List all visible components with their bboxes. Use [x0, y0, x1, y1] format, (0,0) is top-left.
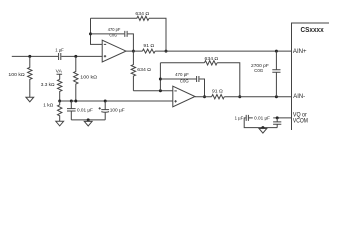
svg-text:470 pF: 470 pF [108, 27, 121, 33]
pin AIN- [293, 93, 305, 100]
svg-text:1 µF: 1 µF [55, 48, 64, 54]
wire cap branch to U2 output node [199, 79, 204, 97]
svg-text:C0G: C0G [180, 79, 189, 85]
svg-text:634 Ω: 634 Ω [205, 56, 219, 62]
svg-text:C0G: C0G [254, 68, 263, 74]
resistor 634 Ohm to U2 input [131, 51, 151, 91]
node U1 output [132, 50, 135, 53]
capacitor 1 uF VQ [235, 115, 249, 122]
wire AIN+ line [155, 50, 291, 52]
wire ground bus under bias caps [71, 119, 105, 121]
wire U1 feedback top right segment [149, 18, 166, 51]
node 0.01uF tap [70, 100, 73, 103]
capacitor 100 uF bias [99, 101, 125, 120]
capacitor 2700 pF [251, 51, 281, 97]
ground under bias caps [84, 120, 92, 126]
wire U1 output to AIN+ [126, 50, 142, 52]
svg-text:1 µF: 1 µF [235, 115, 244, 121]
resistor 91 Ohm U2 output [212, 89, 225, 99]
svg-text:VCOM: VCOM [293, 117, 308, 124]
svg-text:C0G: C0G [109, 33, 117, 39]
op-amp U2 [173, 86, 195, 107]
node U1 feedback tap after 91 Ohm [165, 50, 168, 53]
node 0.01uF VQ tap [276, 116, 279, 119]
node 100uF tap [104, 100, 107, 103]
svg-text:91 Ω: 91 Ω [212, 89, 223, 95]
resistor 634 Ohm U1 feedback [135, 11, 149, 20]
node input bias junction 2 [74, 55, 77, 58]
node input bias junction 1 [28, 55, 31, 58]
power rail VA [56, 69, 63, 80]
node U2 feedback tap after 91 Ohm [238, 95, 241, 98]
label CSxxxx [301, 25, 325, 34]
node U1 feedback cap tap [89, 32, 92, 35]
ground VQ [259, 128, 267, 134]
resistor 3.3 kOhm [41, 79, 62, 101]
svg-text:AIN-: AIN- [293, 93, 305, 100]
svg-text:100 kΩ: 100 kΩ [8, 72, 25, 78]
resistor 1 kOhm [43, 101, 62, 121]
IC CSxxxx border [292, 23, 330, 130]
ground under 1 kOhm [56, 121, 64, 126]
wire to U2 inverting input [133, 90, 172, 92]
node U2 feedback junction [159, 89, 162, 92]
svg-text:1 kΩ: 1 kΩ [43, 102, 53, 108]
capacitor 470 pF U1 [108, 27, 127, 39]
resistor 91 Ohm U1 output [142, 43, 155, 53]
capacitor 470 pF U2 [175, 72, 199, 84]
svg-text:91 Ω: 91 Ω [143, 43, 154, 49]
svg-text:100 µF: 100 µF [110, 108, 125, 114]
node ground bus [87, 118, 90, 121]
ground under 100 kOhm left [26, 97, 34, 102]
resistor 100 kOhm left [8, 56, 32, 97]
svg-text:634 Ω: 634 Ω [137, 67, 151, 73]
svg-text:100 kΩ: 100 kΩ [80, 74, 97, 80]
wire U1 feedback cap branch [91, 33, 125, 35]
svg-text:470 pF: 470 pF [175, 72, 189, 78]
wire VQ line [249, 117, 292, 119]
node 2700pF top [275, 50, 278, 53]
svg-text:0.01 µF: 0.01 µF [77, 107, 93, 113]
wire cap branch to U1 output node [128, 34, 134, 51]
pin VCOM [293, 117, 308, 124]
wire VQ cap to ground [244, 118, 277, 128]
resistor 634 Ohm U2 feedback [204, 56, 218, 65]
pin VQ or [293, 112, 307, 119]
svg-text:0.01 µF: 0.01 µF [254, 116, 270, 122]
pin AIN+ [293, 48, 307, 55]
node U2 output [203, 95, 206, 98]
svg-text:3.3 kΩ: 3.3 kΩ [41, 82, 55, 88]
capacitor C 1uF input [55, 48, 64, 60]
wire bias line to op-amp U2 plus input [60, 100, 173, 102]
node 100k tap on bias line [74, 100, 77, 103]
node U2 feedback cap tap [159, 78, 162, 81]
svg-text:CSxxxx: CSxxxx [301, 25, 325, 34]
svg-text:634 Ω: 634 Ω [135, 11, 149, 17]
capacitor 0.01 uF VQ [253, 115, 281, 128]
node 2700pF bottom [275, 95, 278, 98]
wire U2 output to AIN- [195, 96, 212, 98]
wire U2 feedback left vertical [159, 63, 161, 91]
svg-text:AIN+: AIN+ [293, 48, 307, 55]
wire AIN- line [224, 96, 291, 98]
wire input line left segment [12, 55, 58, 57]
node bias divider junction [58, 100, 61, 103]
node VQ ground bus [261, 126, 264, 129]
wire U2 feedback top right segment [217, 63, 240, 97]
wire input line right segment [61, 55, 102, 57]
wire U2 feedback cap branch [160, 78, 196, 80]
wire U1 feedback top left segment [91, 17, 138, 19]
op-amp U1 [102, 40, 126, 62]
capacitor 0.01 uF bias [67, 101, 93, 120]
wire op-amp U1 inverting input [91, 18, 103, 44]
wire U2 feedback top left segment [160, 62, 204, 64]
resistor 100 kOhm right [74, 56, 98, 101]
